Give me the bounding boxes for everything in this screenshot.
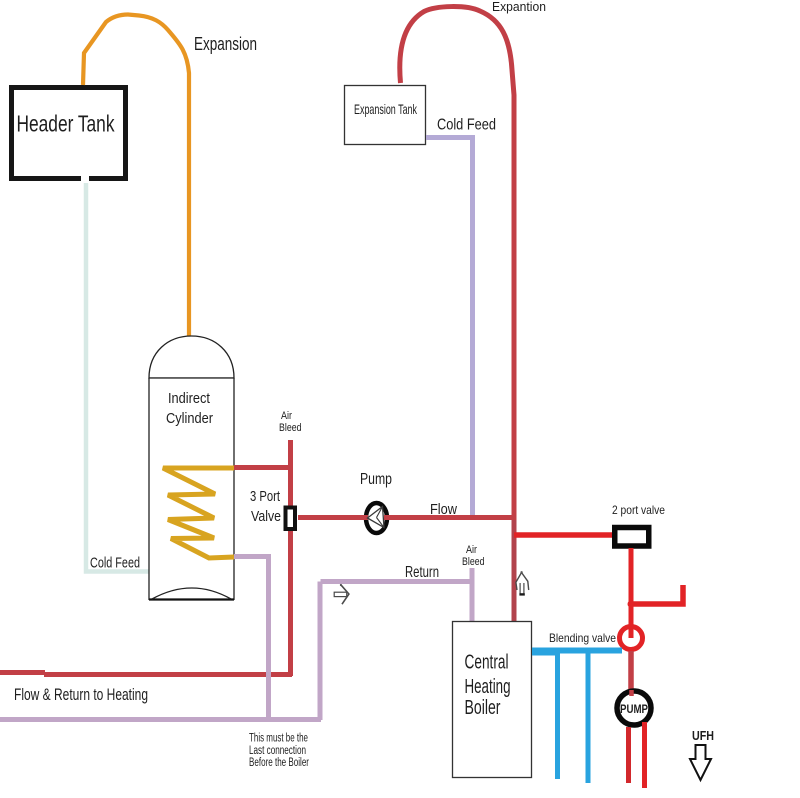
cold feed pipe from header tank (pale cyan) [86, 181, 150, 572]
svg-text:Expansion Tank: Expansion Tank [354, 101, 418, 117]
svg-text:Central: Central [465, 652, 509, 674]
svg-text:Valve: Valve [251, 508, 281, 525]
svg-text:Cold Feed: Cold Feed [437, 117, 496, 134]
expansion tank [345, 86, 426, 145]
pipe to 2 port valve (bright red) [514, 532, 614, 538]
svg-text:2 port valve: 2 port valve [612, 503, 665, 517]
svg-text:3 Port: 3 Port [250, 488, 281, 505]
svg-text:Before the Boiler: Before the Boiler [249, 757, 309, 769]
flow & return to heating label [14, 685, 148, 704]
2 port valve label [612, 503, 665, 517]
cold feed label (top) [437, 117, 496, 134]
svg-text:Heating: Heating [465, 676, 511, 698]
cold feed label (left) [90, 555, 140, 572]
UFH arrow [690, 745, 711, 780]
note: last connection text [249, 733, 309, 770]
blue blending pipes [532, 651, 622, 784]
pump label [360, 471, 392, 488]
blending valve [620, 627, 643, 650]
UFH pipes (red) [629, 722, 645, 788]
header tank [12, 88, 126, 184]
UFH label [692, 729, 714, 743]
svg-text:Bleed: Bleed [279, 422, 302, 434]
indirect cylinder label [166, 390, 213, 427]
return label [405, 564, 439, 581]
blending valve to pump pipe (red) [628, 651, 634, 694]
cold feed pipe (lavender) [426, 138, 473, 517]
svg-text:Air: Air [281, 410, 292, 422]
heating coil (gold) [163, 468, 234, 558]
svg-text:This must be the: This must be the [249, 733, 308, 745]
expantion label [492, 0, 546, 14]
expantion pipe (red arc to boiler) [400, 7, 514, 621]
svg-text:Indirect: Indirect [168, 390, 211, 407]
valve to blending valve pipe (bright red) [629, 548, 634, 638]
svg-text:Pump: Pump [360, 471, 392, 488]
svg-text:Header Tank: Header Tank [17, 111, 115, 137]
return flow-direction arrow marker [334, 584, 349, 604]
svg-text:Bleed: Bleed [462, 556, 485, 568]
svg-text:UFH: UFH [692, 729, 714, 743]
pump P1 [362, 503, 391, 533]
pipe cylinder to air-bleed tee (red) [234, 465, 293, 470]
side branch pipe (bright red) [628, 585, 684, 608]
svg-text:Cold Feed: Cold Feed [90, 555, 140, 572]
expansion pipe (orange) [83, 15, 189, 337]
air bleed label [279, 410, 302, 434]
svg-text:Boiler: Boiler [465, 697, 501, 719]
svg-text:Flow: Flow [430, 501, 457, 518]
svg-text:PUMP: PUMP [620, 702, 648, 716]
svg-text:Air: Air [466, 544, 477, 556]
svg-text:Return: Return [405, 564, 439, 581]
air bleed label 2 [462, 544, 485, 568]
3 port valve label [250, 488, 281, 525]
svg-text:Last connection: Last connection [249, 745, 306, 757]
expansion tank label [354, 101, 418, 117]
flow label [430, 501, 457, 518]
central heating boiler label [465, 652, 511, 720]
indirect cylinder [149, 336, 234, 600]
svg-text:Expansion: Expansion [194, 34, 257, 54]
flow pipe (red) [298, 515, 514, 520]
flow & return to heating pipe (red) [0, 673, 292, 675]
2 port valve [615, 528, 649, 547]
expansion label [194, 34, 257, 54]
pump P2 [617, 690, 651, 725]
cursor up-arrow marker [516, 571, 529, 594]
svg-text:Expantion: Expantion [492, 0, 546, 14]
svg-text:Flow & Return to Heating: Flow & Return to Heating [14, 685, 148, 704]
central heating boiler [453, 622, 532, 778]
svg-text:Cylinder: Cylinder [166, 410, 213, 427]
air bleed pipe (red vertical through 3 port valve) [288, 440, 293, 676]
header tank label [17, 111, 115, 137]
blending valve label [549, 631, 616, 645]
return pipes (mauve) [0, 557, 472, 721]
svg-text:Blending valve: Blending valve [549, 631, 616, 645]
3 port valve [286, 508, 296, 530]
